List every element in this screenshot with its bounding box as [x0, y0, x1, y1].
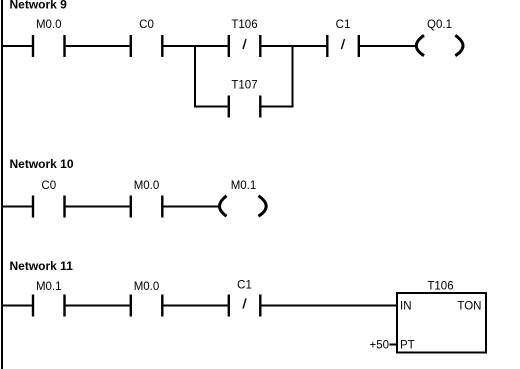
- wire M0.0 to C1: [164, 305, 228, 307]
- svg-text:C0: C0: [139, 19, 154, 31]
- branch wire left to T107: [194, 106, 228, 108]
- branch wire T107 to right vertical: [262, 106, 294, 108]
- svg-text:IN: IN: [400, 301, 412, 313]
- svg-text:Q0.1: Q0.1: [427, 19, 452, 31]
- timer box T106 TON: [369, 281, 486, 353]
- svg-text:M0.0: M0.0: [134, 281, 160, 293]
- svg-text:TON: TON: [457, 301, 481, 313]
- PT input wire: [390, 344, 398, 346]
- wire M0.0 to C0: [66, 45, 130, 47]
- coil Q0.1: [416, 19, 463, 56]
- svg-text:T106: T106: [427, 281, 453, 293]
- coil M0.1: [220, 180, 267, 216]
- wire T106 to C1: [262, 45, 327, 47]
- contact M0.0 (net 11): [130, 281, 164, 317]
- svg-text:Network 11: Network 11: [10, 259, 74, 273]
- wire C1 to TON box: [262, 305, 398, 307]
- svg-text:+50: +50: [369, 340, 389, 352]
- wire rung 11: rail to M0.1: [3, 305, 33, 307]
- branch junction vertical left: [194, 45, 196, 108]
- contact M0.0 (net 10): [130, 180, 164, 218]
- svg-text:C0: C0: [41, 180, 56, 192]
- contact C1 (NC): [326, 19, 360, 57]
- contact C0: [130, 19, 164, 57]
- wire M0.1 to M0.0: [66, 305, 130, 307]
- svg-text:Network 10: Network 10: [10, 157, 74, 171]
- svg-text:Network 9: Network 9: [10, 0, 68, 12]
- wire M0.0 to coil M0.1: [164, 206, 221, 208]
- wire rung 9: rail to M0.0: [3, 45, 33, 47]
- contact C1 NC (net 11): [228, 280, 262, 317]
- svg-text:M0.0: M0.0: [36, 19, 62, 31]
- svg-text:M0.0: M0.0: [134, 180, 160, 192]
- svg-text:C1: C1: [237, 280, 252, 292]
- wire C0 to M0.0: [66, 206, 130, 208]
- svg-text:T106: T106: [231, 19, 257, 31]
- svg-text:M0.1: M0.1: [231, 180, 257, 192]
- left power rail: [1, 0, 3, 369]
- contact T107 (branch): [228, 80, 262, 118]
- contact T106 (NC): [228, 19, 262, 57]
- svg-text:T107: T107: [231, 80, 257, 92]
- wire C1 to coil Q0.1: [360, 45, 417, 47]
- svg-text:PT: PT: [400, 340, 415, 352]
- contact C0 (net 10): [32, 180, 66, 218]
- contact M0.1 (net 11): [32, 281, 66, 317]
- branch junction vertical right: [292, 45, 294, 108]
- svg-text:M0.1: M0.1: [36, 281, 62, 293]
- svg-text:C1: C1: [336, 19, 351, 31]
- contact M0.0: [32, 19, 66, 57]
- wire rung 10: rail to C0: [3, 206, 33, 208]
- wire C0 to T106: [164, 45, 228, 47]
